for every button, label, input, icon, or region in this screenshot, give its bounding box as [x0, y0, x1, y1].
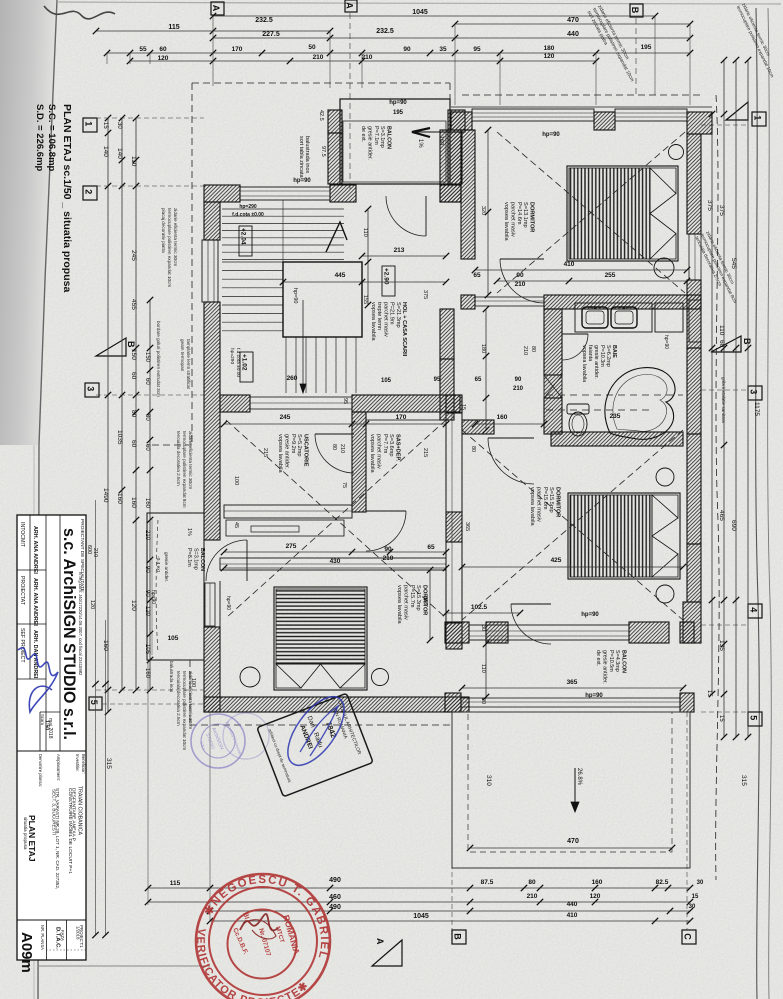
- svg-text:gresie antider.: gresie antider.: [601, 650, 607, 684]
- svg-text:5: 5: [749, 715, 759, 720]
- svg-text:150: 150: [130, 349, 137, 360]
- svg-text:110: 110: [362, 228, 368, 237]
- svg-text:2: 2: [84, 189, 94, 194]
- svg-text:gresie antider.: gresie antider.: [163, 552, 169, 582]
- svg-text:parchet masiv: parchet masiv: [509, 202, 515, 237]
- svg-text:115: 115: [168, 24, 179, 31]
- svg-text:vopsea lavabila: vopsea lavabila: [581, 345, 587, 382]
- svg-text:215: 215: [262, 448, 268, 457]
- svg-text:90: 90: [515, 377, 522, 383]
- svg-text:S.C. = 106.8mp: S.C. = 106.8mp: [46, 104, 57, 172]
- svg-text:S=5.2mp: S=5.2mp: [296, 434, 302, 457]
- svg-text:B: B: [453, 933, 463, 940]
- svg-text:55: 55: [139, 46, 147, 53]
- svg-text:S=3.1mp: S=3.1mp: [379, 126, 385, 148]
- svg-text:CONSTRUIRE IMOBIL DE LOCUIT P+: CONSTRUIRE IMOBIL DE LOCUIT P+1: [67, 788, 73, 874]
- svg-text:hp=290: hp=290: [229, 348, 235, 364]
- svg-text:S=4.3mp: S=4.3mp: [614, 650, 620, 672]
- svg-text:355: 355: [422, 596, 428, 605]
- svg-text:365: 365: [464, 522, 470, 531]
- svg-text:INTOCMIT: INTOCMIT: [19, 522, 25, 548]
- svg-text:DORMITOR: DORMITOR: [555, 487, 561, 517]
- svg-text:zidarie eficienta termic 30cm: zidarie eficienta termic 30cm: [173, 208, 178, 266]
- svg-text:30: 30: [697, 880, 704, 886]
- svg-text:120: 120: [89, 600, 95, 609]
- svg-text:Beneficiar:: Beneficiar:: [81, 754, 86, 774]
- svg-text:1%: 1%: [186, 528, 192, 536]
- svg-text:30: 30: [689, 904, 696, 910]
- svg-text:315: 315: [740, 775, 747, 786]
- svg-text:95: 95: [342, 398, 348, 404]
- svg-text:parchet masiv: parchet masiv: [535, 487, 541, 522]
- svg-text:210: 210: [513, 386, 524, 392]
- svg-text:15: 15: [692, 894, 699, 900]
- svg-text:1: 1: [84, 121, 94, 126]
- svg-text:150: 150: [144, 352, 150, 363]
- svg-text:470: 470: [567, 17, 579, 24]
- svg-text:C: C: [683, 933, 693, 940]
- svg-text:210: 210: [527, 893, 538, 900]
- svg-text:26.8%: 26.8%: [576, 768, 582, 786]
- svg-text:Investitie:: Investitie:: [75, 754, 80, 772]
- svg-text:1490: 1490: [102, 488, 109, 503]
- svg-text:120: 120: [590, 893, 601, 900]
- svg-text:160: 160: [497, 414, 508, 421]
- svg-text:490: 490: [329, 904, 341, 911]
- svg-text:110: 110: [130, 156, 137, 167]
- svg-text:65: 65: [475, 377, 482, 383]
- svg-text:470: 470: [567, 838, 579, 845]
- svg-text:HOL + CASA SCARII: HOL + CASA SCARII: [401, 302, 407, 357]
- svg-text:balustrada inox: balustrada inox: [169, 661, 174, 693]
- svg-text:210: 210: [339, 444, 345, 453]
- svg-text:B: B: [742, 338, 752, 345]
- svg-text:grila instalatie sanitara: grila instalatie sanitara: [721, 377, 726, 423]
- svg-text:vopsea lavabila: vopsea lavabila: [529, 487, 535, 526]
- svg-text:SEF PROIECT: SEF PROIECT: [19, 628, 25, 663]
- svg-text:80: 80: [528, 879, 536, 886]
- svg-text:A: A: [375, 938, 385, 945]
- svg-text:75: 75: [341, 482, 347, 488]
- svg-text:110: 110: [718, 325, 725, 336]
- svg-text:balustrada inox: balustrada inox: [304, 136, 310, 174]
- svg-text:hp=90: hp=90: [150, 590, 156, 604]
- svg-text:245: 245: [280, 414, 291, 421]
- svg-text:245: 245: [130, 250, 137, 261]
- svg-text:445: 445: [335, 272, 346, 279]
- svg-text:210: 210: [362, 54, 373, 61]
- svg-text:NR. PLANSA: NR. PLANSA: [40, 925, 45, 950]
- svg-text:210: 210: [383, 555, 394, 562]
- svg-text:parchet masiv: parchet masiv: [375, 434, 381, 469]
- svg-text:375: 375: [718, 205, 725, 216]
- svg-text:210: 210: [515, 281, 526, 288]
- svg-text:30: 30: [116, 122, 122, 129]
- svg-text:213: 213: [394, 247, 405, 254]
- svg-text:-0.4 ext.: -0.4 ext.: [155, 556, 161, 573]
- svg-text:B: B: [126, 341, 136, 348]
- svg-text:ARH. ANA ANDREI: ARH. ANA ANDREI: [32, 578, 38, 626]
- svg-text:315: 315: [105, 758, 112, 769]
- svg-text:hp=290: hp=290: [239, 204, 257, 210]
- svg-text:15: 15: [460, 404, 466, 410]
- svg-text:80: 80: [144, 414, 150, 421]
- svg-text:S.D. = 226.6mp: S.D. = 226.6mp: [34, 104, 45, 172]
- svg-text:vopsea lavabila: vopsea lavabila: [503, 202, 509, 241]
- svg-text:195: 195: [393, 110, 404, 116]
- svg-text:hp=90: hp=90: [542, 132, 560, 138]
- svg-text:425: 425: [551, 557, 562, 564]
- svg-text:4: 4: [749, 607, 759, 612]
- svg-text:545: 545: [730, 258, 737, 269]
- svg-text:termocuplare polistiren expand: termocuplare polistiren expandat 10cm: [167, 208, 172, 287]
- svg-text:80: 80: [470, 446, 476, 452]
- svg-text:termocuplare polistiren expand: termocuplare polistiren expandat 8cm: [182, 431, 187, 508]
- svg-text:termocuplare polistiren expand: termocuplare polistiren expandat 10cm: [182, 671, 187, 750]
- svg-text:P=7.1m: P=7.1m: [373, 126, 379, 145]
- svg-text:80: 80: [331, 444, 337, 450]
- svg-text:bordare goluri polistiren extr: bordare goluri polistiren extrudat 3cm: [156, 321, 161, 397]
- svg-text:15: 15: [718, 715, 724, 722]
- svg-text:210: 210: [92, 548, 98, 557]
- svg-text:f.d.cota ±0.00: f.d.cota ±0.00: [232, 212, 264, 218]
- svg-text:tamplarie lemn stratificat: tamplarie lemn stratificat: [186, 339, 191, 390]
- svg-text:440: 440: [567, 901, 578, 908]
- svg-text:1035: 1035: [116, 430, 123, 445]
- svg-text:65: 65: [473, 272, 481, 279]
- svg-text:65: 65: [427, 544, 435, 551]
- svg-text:100: 100: [190, 678, 196, 687]
- svg-text:vopsea lavabila: vopsea lavabila: [370, 302, 376, 341]
- svg-text:60: 60: [159, 46, 167, 53]
- svg-text:A: A: [211, 5, 221, 12]
- svg-text:vopsea lavabila: vopsea lavabila: [277, 434, 283, 473]
- svg-text:82.5: 82.5: [656, 879, 669, 886]
- svg-text:195: 195: [641, 44, 652, 51]
- svg-text:P=21.9m: P=21.9m: [389, 302, 395, 325]
- svg-text:320: 320: [480, 206, 486, 215]
- svg-text:97.5: 97.5: [320, 146, 326, 157]
- svg-text:P=8.1m: P=8.1m: [186, 548, 192, 567]
- svg-text:de ext.: de ext.: [360, 126, 366, 142]
- svg-text:60: 60: [144, 378, 150, 385]
- svg-text:460: 460: [329, 894, 341, 901]
- svg-text:TRAIAN CIOBANICA: TRAIAN CIOBANICA: [77, 786, 83, 836]
- svg-text:mai 2018: mai 2018: [47, 718, 53, 739]
- svg-text:hp=90: hp=90: [389, 100, 407, 106]
- svg-text:160: 160: [144, 668, 150, 679]
- svg-text:P=9.2m: P=9.2m: [290, 434, 296, 454]
- svg-text:vopsea lavabila: vopsea lavabila: [396, 585, 402, 624]
- svg-text:465: 465: [718, 510, 725, 521]
- svg-text:80: 80: [530, 346, 536, 352]
- svg-text:gresie antider.: gresie antider.: [283, 434, 289, 470]
- svg-text:140: 140: [102, 146, 109, 157]
- svg-text:102.5: 102.5: [471, 604, 488, 611]
- svg-text:Amplasament:: Amplasament:: [56, 754, 61, 781]
- svg-text:35: 35: [439, 46, 447, 53]
- svg-text:15: 15: [706, 690, 712, 697]
- svg-text:120: 120: [130, 600, 137, 611]
- svg-text:180: 180: [544, 45, 555, 52]
- svg-text:600: 600: [86, 545, 92, 554]
- svg-text:90: 90: [403, 46, 411, 53]
- svg-text:de ext.: de ext.: [595, 650, 601, 666]
- svg-text:235: 235: [610, 413, 621, 420]
- svg-text:s.c. ArchiSIGN STUDIO s.r.l.: s.c. ArchiSIGN STUDIO s.r.l.: [60, 528, 79, 740]
- svg-text:160: 160: [144, 498, 150, 509]
- svg-text:hp=90: hp=90: [225, 596, 231, 610]
- svg-text:260: 260: [287, 375, 298, 382]
- svg-text:parchet masiv: parchet masiv: [382, 302, 388, 337]
- svg-text:440: 440: [567, 31, 579, 38]
- svg-text:USCATORIE: USCATORIE: [303, 434, 309, 467]
- svg-text:P=10.5m: P=10.5m: [608, 650, 614, 672]
- svg-text:170: 170: [396, 414, 407, 421]
- svg-text:hp=90: hp=90: [663, 335, 669, 349]
- svg-text:S=3.6mp: S=3.6mp: [388, 434, 394, 457]
- svg-text:375: 375: [422, 290, 428, 299]
- svg-text:3: 3: [86, 386, 96, 391]
- svg-text:A: A: [345, 2, 355, 9]
- svg-text:120: 120: [544, 53, 555, 60]
- svg-text:690: 690: [730, 520, 737, 531]
- svg-text:60: 60: [130, 440, 137, 448]
- svg-text:1%: 1%: [417, 139, 423, 148]
- svg-text:160: 160: [130, 497, 137, 508]
- svg-text:nr.reg.com. J40/17220/14.09.20: nr.reg.com. J40/17220/14.09.2007, cod fi…: [78, 572, 83, 676]
- svg-text:95: 95: [473, 46, 481, 53]
- svg-text:1045: 1045: [413, 913, 429, 920]
- svg-text:SAS+DEP.: SAS+DEP.: [395, 434, 401, 462]
- svg-text:227.5: 227.5: [262, 31, 280, 38]
- svg-text:310: 310: [485, 775, 492, 786]
- svg-text:50: 50: [308, 44, 316, 51]
- svg-text:87.5: 87.5: [481, 879, 494, 886]
- svg-text:60: 60: [718, 340, 725, 348]
- svg-text:375: 375: [706, 200, 713, 211]
- svg-text:SECT. 3, BUCURESTI: SECT. 3, BUCURESTI: [52, 789, 57, 835]
- svg-text:210: 210: [313, 54, 324, 61]
- svg-text:210: 210: [522, 346, 528, 355]
- svg-text:tencuiala decorativa 2.5cm: tencuiala decorativa 2.5cm: [176, 431, 181, 486]
- svg-text:BALCON: BALCON: [621, 650, 627, 673]
- svg-text:105: 105: [381, 378, 392, 384]
- svg-text:A09m: A09m: [18, 932, 35, 973]
- svg-text:20: 20: [480, 698, 486, 704]
- svg-text:80: 80: [130, 410, 137, 418]
- svg-text:S=21.3mp: S=21.3mp: [395, 302, 401, 328]
- svg-text:232.5: 232.5: [255, 17, 273, 24]
- svg-text:110: 110: [480, 664, 486, 673]
- svg-text:410: 410: [567, 912, 578, 919]
- svg-text:45: 45: [233, 522, 239, 528]
- svg-text:160: 160: [116, 493, 123, 504]
- svg-text:S=15.5mp: S=15.5mp: [548, 487, 554, 513]
- svg-text:160: 160: [438, 136, 444, 145]
- svg-text:30: 30: [480, 625, 486, 631]
- svg-text:+1.02: +1.02: [241, 354, 248, 371]
- svg-text:232.5: 232.5: [376, 28, 394, 35]
- svg-text:5: 5: [89, 700, 99, 705]
- svg-text:hp=90: hp=90: [293, 178, 311, 184]
- svg-text:PROIECTAT: PROIECTAT: [19, 576, 25, 606]
- svg-text:hp=90: hp=90: [585, 693, 603, 699]
- svg-text:455: 455: [130, 299, 137, 310]
- svg-text:ARH. ANA ANDREI: ARH. ANA ANDREI: [32, 526, 38, 574]
- svg-text:BALCON: BALCON: [199, 548, 205, 571]
- svg-text:tencuiala decorativa 2.5cm: tencuiala decorativa 2.5cm: [176, 671, 181, 726]
- svg-text:vopsea lavabila: vopsea lavabila: [369, 434, 375, 473]
- svg-text:430: 430: [330, 558, 341, 565]
- svg-text:42.5: 42.5: [318, 110, 324, 121]
- svg-text:15: 15: [102, 122, 108, 129]
- svg-text:+2.04: +2.04: [240, 228, 247, 245]
- svg-text:160: 160: [592, 879, 603, 886]
- svg-text:BALCON: BALCON: [386, 126, 392, 149]
- svg-text:trepte lemn: trepte lemn: [376, 302, 382, 330]
- svg-text:1/2018: 1/2018: [76, 926, 81, 940]
- svg-text:1175: 1175: [753, 402, 760, 416]
- svg-text:B: B: [630, 7, 640, 14]
- svg-text:PLAN ETAJ sc.1/50 _ situ: PLAN ETAJ sc.1/50 _ situatia propusa: [61, 104, 73, 292]
- svg-text:255: 255: [605, 272, 616, 279]
- svg-text:P=7.7m: P=7.7m: [382, 434, 388, 454]
- svg-text:170: 170: [232, 46, 243, 53]
- svg-text:placaj decorativ piatra: placaj decorativ piatra: [161, 208, 166, 253]
- svg-text:115: 115: [170, 880, 181, 887]
- svg-text:S=13.1mp: S=13.1mp: [522, 202, 528, 228]
- svg-text:140: 140: [116, 148, 123, 159]
- svg-text:410: 410: [564, 261, 575, 268]
- svg-text:95: 95: [434, 377, 441, 383]
- svg-text:155: 155: [362, 295, 368, 304]
- svg-text:105: 105: [168, 635, 179, 642]
- svg-text:D.T.A.C.: D.T.A.C.: [55, 927, 61, 949]
- svg-text:90: 90: [516, 272, 524, 279]
- svg-text:275: 275: [286, 543, 297, 550]
- svg-text:1: 1: [753, 115, 763, 120]
- svg-text:gresie antider.: gresie antider.: [366, 126, 372, 160]
- svg-text:1045: 1045: [412, 9, 428, 16]
- svg-text:S=3.1mp: S=3.1mp: [192, 548, 198, 570]
- svg-text:geam termopan: geam termopan: [180, 339, 185, 372]
- svg-text:hp=90: hp=90: [581, 612, 599, 618]
- svg-text:100: 100: [233, 476, 239, 485]
- svg-text:215: 215: [422, 448, 428, 457]
- svg-text:3: 3: [749, 389, 759, 394]
- svg-text:S=15.3mp: S=15.3mp: [415, 585, 421, 611]
- svg-text:sort tabla zincata: sort tabla zincata: [298, 136, 304, 179]
- svg-text:365: 365: [567, 679, 578, 686]
- svg-text:DORMITOR: DORMITOR: [529, 202, 535, 232]
- svg-text:hp=90: hp=90: [292, 288, 298, 303]
- svg-text:P=15.7m: P=15.7m: [409, 585, 415, 608]
- svg-text:120: 120: [158, 55, 169, 62]
- svg-text:180: 180: [480, 344, 486, 353]
- svg-text:60: 60: [130, 372, 137, 380]
- svg-text:situatia propusa: situatia propusa: [23, 817, 28, 850]
- svg-text:490: 490: [329, 877, 341, 884]
- svg-text:P=14.6m: P=14.6m: [516, 202, 522, 225]
- svg-text:parchet masiv: parchet masiv: [402, 585, 408, 620]
- svg-text:Denumire plansa:: Denumire plansa:: [38, 754, 43, 787]
- svg-text:f.d.cota ±0.00: f.d.cota ±0.00: [235, 348, 241, 377]
- svg-text:P=15.8m: P=15.8m: [542, 487, 548, 510]
